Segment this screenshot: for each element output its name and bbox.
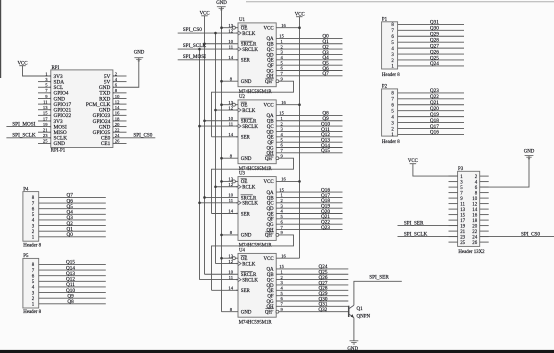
junction SPI_SCLK rail at U3 — [198, 202, 201, 205]
wire net Q26 from U4 QC pin 2 — [276, 279, 348, 281]
P3 pin 1 stub — [449, 175, 458, 177]
wire VCC to HP1 pin 1 — [23, 66, 51, 76]
wire net Q18 from P2 pin 3 — [398, 122, 464, 124]
svg-text:16: 16 — [472, 214, 477, 219]
junction VCC rail at U3 SRCLR — [203, 196, 206, 199]
wire SPI_SCLK to P3 pin 23 — [398, 236, 458, 238]
svg-text:Q0: Q0 — [67, 232, 74, 238]
HP1 pin 15 stub — [38, 114, 51, 116]
svg-text:SRCLR: SRCLR — [241, 196, 257, 201]
svg-text:12: 12 — [228, 105, 233, 110]
U2 pin 10 SRCLR wire — [205, 120, 239, 122]
U1 pin 12 RCLK name — [238, 31, 241, 35]
svg-text:QC: QC — [267, 125, 274, 130]
HP1 pin 13 stub — [38, 109, 51, 111]
svg-text:QE: QE — [267, 136, 274, 141]
svg-text:QB: QB — [267, 43, 275, 48]
svg-text:15: 15 — [279, 187, 284, 192]
svg-text:Q16: Q16 — [430, 130, 439, 136]
wire net Q22 from P2 pin 7 — [398, 98, 464, 100]
svg-text:Header 8: Header 8 — [382, 73, 400, 78]
wire SPI_CS0 from HP1 pin 24 — [113, 137, 155, 139]
wire net Q24 from P1 pin 1 — [398, 65, 464, 67]
svg-text:VCC: VCC — [264, 27, 274, 32]
HP1 pin 5 stub — [38, 86, 51, 88]
HP1 pin 22 stub — [113, 131, 127, 133]
svg-text:21: 21 — [43, 128, 48, 133]
svg-text:QH’: QH’ — [265, 234, 274, 239]
wire SPI_SCLK rail vertical — [199, 49, 201, 280]
wire net Q32 from U4 QH' to Q1 base — [279, 311, 349, 313]
svg-text:GND: GND — [134, 50, 145, 55]
svg-text:10: 10 — [228, 193, 233, 198]
HP1 pin 11 stub — [38, 103, 51, 105]
svg-text:Header 8: Header 8 — [23, 243, 41, 248]
wire HP1 pin 6 to GND — [113, 58, 139, 88]
U4 pin 11 SRCLK name — [238, 278, 241, 282]
HP1 pin 16 stub — [113, 114, 127, 116]
svg-text:14: 14 — [228, 55, 233, 60]
wire net Q30 from P1 pin 7 — [398, 29, 464, 31]
wire net Q12 from U2 QE pin 4 — [276, 136, 342, 138]
svg-text:20: 20 — [115, 122, 120, 127]
P3 pin 6 stub — [480, 186, 489, 188]
svg-text:QH: QH — [267, 228, 275, 233]
wire SPI_CS0 to U1 RCLK — [178, 32, 238, 34]
svg-text:OE: OE — [241, 257, 248, 262]
transistor Q1 QNPN — [349, 305, 371, 319]
svg-text:SRCLK: SRCLK — [242, 202, 258, 207]
svg-text:14: 14 — [472, 208, 477, 213]
wire net Q17 from P2 pin 2 — [398, 127, 464, 129]
svg-text:11: 11 — [460, 203, 465, 208]
P3 pin 14 stub — [480, 208, 489, 210]
P3 pin 25 stub — [449, 241, 458, 243]
wire net Q23 from U3 QH pin 7 — [276, 229, 342, 231]
HP1 pin 26 stub — [113, 142, 127, 144]
svg-text:QF: QF — [267, 141, 274, 146]
svg-text:10: 10 — [228, 116, 233, 121]
svg-text:QA: QA — [267, 191, 275, 196]
junction VCC rail at U2 SRCLR — [203, 119, 206, 122]
svg-text:GND: GND — [241, 80, 252, 85]
svg-text:21: 21 — [460, 230, 465, 235]
P3 pin 8 stub — [480, 192, 489, 194]
svg-text:QD: QD — [267, 284, 275, 289]
svg-text:QG: QG — [267, 69, 275, 74]
U4 pin 10 SRCLR wire — [205, 273, 239, 275]
wire net Q26 from P1 pin 3 — [398, 53, 464, 55]
svg-text:20: 20 — [472, 225, 477, 230]
svg-text:17: 17 — [43, 116, 48, 121]
P3 pin 19 stub — [449, 225, 458, 227]
HP1 pin 3 stub — [38, 81, 51, 83]
svg-text:P1: P1 — [382, 17, 388, 22]
svg-text:SRCLR: SRCLR — [241, 43, 257, 48]
svg-text:QB: QB — [267, 273, 275, 278]
svg-text:GND: GND — [524, 150, 535, 155]
U2 pin 11 SRCLK wire — [200, 125, 239, 127]
svg-text:19: 19 — [43, 122, 48, 127]
sheet top edge line — [246, 1, 554, 3]
svg-text:14: 14 — [115, 105, 120, 110]
svg-text:GND: GND — [241, 311, 252, 316]
svg-text:13: 13 — [228, 100, 233, 105]
P3 pin 5 stub — [449, 186, 458, 188]
svg-text:SER: SER — [241, 289, 251, 294]
svg-text:P5: P5 — [23, 254, 29, 259]
junction VCC rail at U1 SRCLR — [203, 42, 206, 45]
U1 pin 16 VCC wire — [276, 27, 299, 29]
svg-text:16: 16 — [281, 177, 286, 182]
wire net Q17 from U3 QB pin 1 — [276, 196, 342, 198]
wire net Q13 from P5 pin 6 — [39, 275, 106, 277]
svg-text:P3: P3 — [458, 167, 464, 172]
junction SPI_CS0 rail at U3 — [214, 185, 217, 188]
svg-text:QA: QA — [267, 268, 275, 273]
HP1 pin 8 stub — [113, 92, 127, 94]
svg-text:CE1: CE1 — [101, 141, 111, 147]
svg-text:QF: QF — [267, 294, 274, 299]
svg-text:16: 16 — [281, 253, 286, 258]
svg-text:25: 25 — [460, 241, 465, 246]
U3 pin 14 SER wire — [212, 213, 239, 215]
P3 pin 21 stub — [449, 230, 458, 232]
wire net Q13 from U2 QF pin 5 — [276, 141, 342, 143]
P3 pin 9 stub — [449, 197, 458, 199]
svg-text:VCC: VCC — [264, 104, 274, 109]
svg-text:SPI_SER: SPI_SER — [369, 274, 389, 280]
shift register U2 M74HC595M1R body — [238, 100, 276, 164]
U1 pin 9 QH' bubble — [276, 80, 279, 83]
U3 pin 9 QH' bubble — [276, 233, 279, 236]
svg-text:13: 13 — [43, 105, 48, 110]
junction SPI_CS0 rail at U1 — [214, 32, 217, 35]
wire net Q27 from U4 QD pin 3 — [276, 284, 348, 286]
U3 pin 12 RCLK name — [238, 185, 241, 189]
U1 pin 11 SRCLK name — [238, 47, 241, 51]
wire net Q9 from P5 pin 2 — [39, 297, 106, 299]
wire net Q10 from U2 QC pin 2 — [276, 125, 342, 127]
wire net Q23 from P2 pin 8 — [398, 92, 464, 94]
svg-text:SPI_MOSI: SPI_MOSI — [183, 54, 206, 60]
wire net Q15 from U2 QH pin 7 — [276, 152, 342, 154]
HP1 pin 2 stub — [113, 75, 127, 77]
P3 pin 23 stub — [449, 236, 458, 238]
junction GND rail at U2 OE — [220, 103, 223, 106]
wire net Q5 from U1 QF pin 5 — [276, 64, 342, 66]
U4 pin 12 RCLK name — [238, 261, 241, 265]
svg-text:QD: QD — [267, 207, 275, 212]
wire net Q16 from U3 QA pin 15 — [276, 191, 342, 193]
svg-text:26: 26 — [115, 139, 120, 144]
svg-text:26: 26 — [472, 241, 477, 246]
svg-text:QE: QE — [267, 289, 274, 294]
svg-text:12: 12 — [228, 182, 233, 187]
svg-text:23: 23 — [460, 236, 465, 241]
svg-text:14: 14 — [228, 209, 233, 214]
svg-text:Q7: Q7 — [322, 71, 329, 77]
wire net Q7 from P4 pin 8 — [39, 196, 106, 198]
svg-text:GND: GND — [241, 234, 252, 239]
wire net Q29 from P1 pin 6 — [398, 35, 464, 37]
wire SPI_MOSI to HP1 pin 19 — [6, 126, 50, 128]
junction GND rail at U1 OE — [220, 26, 223, 29]
wire net Q4 from U1 QE pin 4 — [276, 59, 342, 61]
wire net Q6 from U1 QG pin 6 — [276, 70, 342, 72]
sheet bottom border bar — [0, 350, 554, 353]
wire net Q7 from U1 QH pin 7 — [276, 75, 342, 77]
wire net Q29 from U4 QF pin 5 — [276, 295, 348, 297]
svg-text:QE: QE — [267, 59, 274, 64]
P3 pin 11 stub — [449, 203, 458, 205]
HP1 pin 21 stub — [38, 131, 51, 133]
svg-text:QH: QH — [267, 305, 275, 310]
svg-text:OE: OE — [241, 180, 248, 185]
svg-text:GND: GND — [347, 347, 358, 352]
svg-text:QF: QF — [267, 218, 274, 223]
svg-text:U1: U1 — [239, 18, 246, 23]
svg-text:RCLK: RCLK — [242, 32, 256, 37]
HP1 pin 20 stub — [113, 126, 127, 128]
U2 pin 12 RCLK name — [238, 108, 241, 112]
svg-text:QH’: QH’ — [265, 311, 274, 316]
svg-text:22: 22 — [115, 128, 120, 133]
svg-text:12: 12 — [115, 99, 120, 104]
U3 pin 10 SRCLR wire — [205, 196, 239, 198]
svg-text:10: 10 — [115, 94, 120, 99]
wire net Q30 from U4 QG pin 6 — [276, 300, 348, 302]
wire net Q14 from P5 pin 7 — [39, 269, 106, 271]
svg-text:Q1: Q1 — [357, 307, 364, 312]
svg-text:SPI_SCLK: SPI_SCLK — [183, 43, 207, 49]
wire net Q22 from U3 QG pin 6 — [276, 223, 342, 225]
shift register U4 M74HC595M1R body — [238, 253, 276, 317]
svg-text:Q32: Q32 — [318, 307, 327, 313]
junction SPI_SCLK rail at U1 — [198, 48, 201, 51]
connector P4 box — [23, 192, 39, 242]
wire net Q27 from P1 pin 4 — [398, 47, 464, 49]
svg-text:17: 17 — [460, 219, 465, 224]
svg-text:10: 10 — [228, 39, 233, 44]
wire net Q11 from P5 pin 4 — [39, 286, 106, 288]
P3 pin 16 stub — [480, 214, 489, 216]
ground GND at Q1 emitter — [350, 340, 359, 342]
P3 pin 2 stub — [480, 175, 489, 177]
wire net Q25 from P1 pin 2 — [398, 59, 464, 61]
connector P5 box — [23, 258, 39, 308]
U4 pin 8 GND wire — [222, 311, 239, 313]
junction VCC right rail at U3 — [298, 180, 301, 183]
svg-text:24: 24 — [115, 133, 120, 138]
svg-text:Header 8: Header 8 — [23, 310, 41, 315]
U2 pin 14 SER wire — [212, 136, 239, 138]
HP1 pin 17 stub — [38, 120, 51, 122]
svg-text:13: 13 — [228, 23, 233, 28]
U4 pin 14 SER wire — [212, 289, 239, 291]
HP1 pin 7 stub — [38, 92, 51, 94]
svg-text:SRCLK: SRCLK — [242, 278, 258, 283]
svg-text:M74HC595M1R: M74HC595M1R — [239, 320, 273, 325]
wire net Q1 from U1 QB pin 1 — [276, 43, 342, 45]
junction GND rail at U4 OE — [220, 257, 223, 260]
svg-text:16: 16 — [281, 100, 286, 105]
P3 pin 18 stub — [480, 219, 489, 221]
wire net Q5 from P4 pin 6 — [39, 208, 106, 210]
svg-text:QE: QE — [267, 212, 274, 217]
svg-text:12: 12 — [228, 28, 233, 33]
wire net Q31 from P1 pin 8 — [398, 23, 464, 25]
wire net Q8 from P5 pin 1 — [39, 303, 106, 305]
wire net Q18 from U3 QC pin 2 — [276, 202, 342, 204]
wire net Q3 from P4 pin 4 — [39, 219, 106, 221]
svg-text:SRCLK: SRCLK — [242, 48, 258, 53]
svg-text:SER: SER — [241, 59, 251, 64]
svg-text:15: 15 — [43, 111, 48, 116]
svg-text:QC: QC — [267, 48, 274, 53]
wire SPI_CS0 rail vertical — [215, 33, 217, 263]
svg-text:22: 22 — [472, 230, 477, 235]
svg-text:SER: SER — [241, 136, 251, 141]
wire net Q28 from P1 pin 5 — [398, 41, 464, 43]
wire SPI_SCLK to U1 SRCLK — [178, 48, 238, 50]
svg-text:25: 25 — [43, 139, 48, 144]
svg-text:SRCLR: SRCLR — [241, 120, 257, 125]
wire net Q25 from U4 QB pin 1 — [276, 273, 348, 275]
svg-text:QD: QD — [267, 130, 275, 135]
svg-text:GND: GND — [241, 157, 252, 162]
svg-text:16: 16 — [115, 111, 120, 116]
svg-text:OE: OE — [241, 27, 248, 32]
P3 pin 4 stub — [480, 181, 489, 183]
wire VCC to P3 pin 1 — [413, 164, 458, 176]
U4 pin 11 SRCLK wire — [200, 279, 239, 281]
svg-text:13: 13 — [228, 177, 233, 182]
junction SPI_SCLK rail at U2 — [198, 125, 201, 128]
svg-text:QG: QG — [267, 146, 275, 151]
wire U2 QH' to U3 SER cascade — [212, 158, 294, 213]
U4 pin 9 QH' bubble — [276, 310, 279, 313]
svg-text:QH’: QH’ — [265, 80, 274, 85]
junction GND rail at U3 pin 8 — [220, 234, 223, 237]
svg-text:RPI-P1: RPI-P1 — [51, 149, 66, 154]
wire net Q0 from P4 pin 1 — [39, 236, 106, 238]
wire U1 QH' to U2 SER cascade — [212, 81, 294, 137]
svg-text:OE: OE — [241, 104, 248, 109]
U4 pin 16 VCC wire — [276, 257, 299, 259]
wire net Q20 from U3 QE pin 4 — [276, 213, 342, 215]
wire net Q21 from P2 pin 6 — [398, 104, 464, 106]
junction SPI_CS0 rail at U2 — [214, 109, 217, 112]
U3 pin 13 OE stub — [222, 180, 233, 182]
svg-text:QD: QD — [267, 53, 275, 58]
svg-text:SRCLR: SRCLR — [241, 273, 257, 278]
svg-text:12: 12 — [472, 203, 477, 208]
svg-text:15: 15 — [279, 34, 284, 39]
wire net Q19 from U3 QD pin 3 — [276, 207, 342, 209]
HP1 pin 25 stub — [38, 142, 51, 144]
svg-text:13: 13 — [460, 208, 465, 213]
P3 pin 17 stub — [449, 219, 458, 221]
svg-text:RCLK: RCLK — [242, 109, 256, 114]
shift register U3 M74HC595M1R body — [238, 177, 276, 241]
svg-text:Q8: Q8 — [67, 299, 74, 305]
svg-text:11: 11 — [43, 99, 48, 104]
svg-text:QA: QA — [267, 37, 275, 42]
P3 pin 12 stub — [480, 203, 489, 205]
svg-text:QH: QH — [267, 152, 275, 157]
U2 pin 16 VCC wire — [276, 104, 299, 106]
wire VCC left rail vertical — [204, 16, 206, 274]
svg-text:19: 19 — [460, 225, 465, 230]
svg-text:18: 18 — [115, 116, 120, 121]
U2 pin 11 SRCLK name — [238, 124, 241, 128]
wire U3 QH' to U4 SER cascade — [212, 235, 294, 290]
U1 pin 10 SRCLR wire — [205, 43, 239, 45]
svg-text:VCC: VCC — [264, 180, 274, 185]
svg-text:14: 14 — [228, 286, 233, 291]
U3 pin 16 VCC wire — [276, 180, 299, 182]
U4 pin 13 OE stub — [222, 257, 233, 259]
wire GND rail vertical — [221, 7, 223, 312]
junction VCC right rail at U2 — [298, 103, 301, 106]
svg-text:QC: QC — [267, 202, 274, 207]
U4 pin 12 RCLK wire — [216, 263, 239, 265]
wire Q1 collector to SPI_SER — [354, 281, 402, 305]
U1 pin 13 OE stub — [222, 27, 233, 29]
wire net Q21 from U3 QF pin 5 — [276, 218, 342, 220]
P3 pin 24 stub — [480, 236, 489, 238]
connector P1 box — [382, 22, 398, 69]
svg-text:QG: QG — [267, 223, 275, 228]
wire net Q4 from P4 pin 5 — [39, 213, 106, 215]
HP1 pin 10 stub — [113, 97, 127, 99]
svg-text:GND: GND — [216, 1, 227, 6]
HP1 pin 14 stub — [113, 109, 127, 111]
svg-text:QB: QB — [267, 196, 275, 201]
P3 pin 22 stub — [480, 230, 489, 232]
wire net Q1 from P4 pin 2 — [39, 230, 106, 232]
wire net Q3 from U1 QD pin 3 — [276, 53, 342, 55]
P3 pin 3 stub — [449, 181, 458, 183]
wire net Q16 from P2 pin 1 — [398, 133, 464, 135]
wire net Q31 from U4 QH pin 7 — [276, 305, 348, 307]
svg-text:RCLK: RCLK — [242, 262, 256, 267]
wire P3 pin 6 to GND — [480, 156, 529, 188]
connector HP1 RPI-P1 box — [51, 70, 113, 148]
wire net Q2 from P4 pin 3 — [39, 225, 106, 227]
svg-text:RPI: RPI — [52, 66, 60, 71]
svg-text:P4: P4 — [23, 187, 29, 192]
wire SPI_SER to P3 pin 19 — [398, 225, 458, 227]
svg-text:QB: QB — [267, 120, 275, 125]
wire net Q20 from P2 pin 5 — [398, 110, 464, 112]
U3 pin 12 RCLK wire — [216, 186, 239, 188]
wire SPI_MOSI to U1 SER — [178, 59, 238, 61]
wire net Q24 from U4 QA pin 15 — [276, 268, 348, 270]
wire net Q2 from U1 QC pin 2 — [276, 48, 342, 50]
svg-text:U3: U3 — [239, 172, 246, 177]
connector P2 box — [382, 89, 398, 136]
svg-text:SRCLK: SRCLK — [242, 125, 258, 130]
svg-text:11: 11 — [229, 121, 234, 126]
svg-text:12: 12 — [228, 259, 233, 264]
svg-text:QF: QF — [267, 64, 274, 69]
U2 pin 12 RCLK wire — [216, 109, 239, 111]
U3 pin 8 GND wire — [222, 234, 239, 236]
HP1 pin 4 stub — [113, 81, 127, 83]
junction GND rail at U3 OE — [220, 180, 223, 183]
